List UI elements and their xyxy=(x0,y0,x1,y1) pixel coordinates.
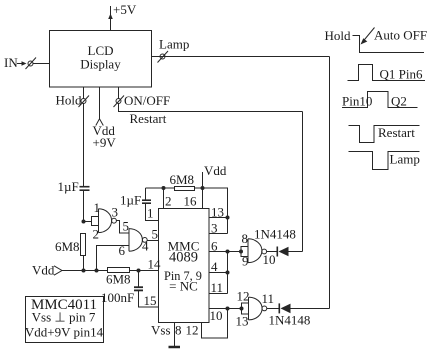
svg-text:Hold: Hold xyxy=(56,93,83,108)
svg-text:+9V: +9V xyxy=(93,135,117,150)
svg-text:4: 4 xyxy=(142,239,149,254)
diode D2 1N4148 xyxy=(279,303,290,313)
arrowhead +5V xyxy=(108,14,113,20)
gate U1c NAND pins 8,9,10 xyxy=(248,239,267,263)
wire gate1 out jog to gate2 pin5 xyxy=(117,221,130,234)
wire top rail right of resistor xyxy=(195,188,228,234)
diode D1 1N4148 xyxy=(277,247,288,257)
gate U1b NAND pins 5,6,4 xyxy=(129,229,147,252)
connector chevron Vdd rail xyxy=(54,266,62,275)
wire gate4 input splitter xyxy=(242,303,249,314)
junction dot resistor R1 at Vdd rail xyxy=(82,269,86,273)
svg-text:Hold: Hold xyxy=(325,28,352,43)
svg-text:Vss: Vss xyxy=(151,323,171,338)
wire gate2 output to IC pin5 xyxy=(147,240,158,242)
timing Q1 waveform xyxy=(348,65,426,81)
timing Auto OFF arrow xyxy=(361,28,375,45)
wire diode D1 to Restart riser xyxy=(289,251,303,253)
resistor R2 6M8 horizontal xyxy=(108,268,130,273)
svg-text:1µF: 1µF xyxy=(120,193,141,208)
wire diode D2 to Lamp riser xyxy=(291,308,330,310)
svg-text:4: 4 xyxy=(211,259,218,274)
wire gate1 input xyxy=(84,221,92,223)
svg-text:16: 16 xyxy=(184,194,198,209)
svg-text:3: 3 xyxy=(211,221,218,236)
connector circle IN xyxy=(28,61,33,66)
wire IC pin13 xyxy=(209,217,228,219)
connector circle Lamp xyxy=(160,54,165,59)
svg-text:8: 8 xyxy=(242,231,249,246)
svg-text:Q1 Pin6: Q1 Pin6 xyxy=(380,67,423,82)
svg-text:6M8: 6M8 xyxy=(170,172,195,187)
junction dot gate3 input xyxy=(239,250,243,254)
svg-text:Q2: Q2 xyxy=(391,94,407,109)
wire 100nF top lead xyxy=(138,271,140,288)
wire Lamp riser down to bottom diode xyxy=(329,57,331,309)
wire Hold stub xyxy=(83,87,85,99)
wire Vdd to IC pin16 xyxy=(202,172,204,209)
svg-text:13: 13 xyxy=(211,205,224,220)
wire ON/OFF down then right (Restart) xyxy=(119,104,303,112)
svg-text:14: 14 xyxy=(148,257,162,272)
wire Lamp horizontal xyxy=(152,56,330,58)
svg-text:5: 5 xyxy=(123,219,130,234)
svg-text:Auto OFF: Auto OFF xyxy=(374,28,427,43)
connector slash ON/OFF xyxy=(114,96,125,108)
svg-text:1N4148: 1N4148 xyxy=(254,227,296,242)
svg-text:Restart: Restart xyxy=(130,111,167,126)
junction dot pin6 at bus xyxy=(226,250,230,254)
svg-text:12: 12 xyxy=(237,289,250,304)
gate U1d NAND pins 12,13,11 xyxy=(249,297,267,320)
svg-text:11: 11 xyxy=(262,291,275,306)
junction dot 100nF at Vdd rail xyxy=(137,269,141,273)
wire IC pin4 xyxy=(209,272,228,274)
wire IC pin10 to gate4 xyxy=(209,308,241,310)
wire cap1 lower lead to gate1 node xyxy=(83,190,85,222)
wire cap2 top lead xyxy=(145,188,147,200)
svg-text:3: 3 xyxy=(112,205,119,220)
svg-text:5: 5 xyxy=(152,227,159,242)
svg-text:2: 2 xyxy=(165,194,172,209)
wire IC pin12 loop xyxy=(202,309,228,339)
svg-text:Lamp: Lamp xyxy=(390,152,420,167)
svg-text:Vss ⊥ pin 7: Vss ⊥ pin 7 xyxy=(32,310,96,325)
gate U1a NAND pins 1,2,3 xyxy=(99,209,117,233)
svg-text:100nF: 100nF xyxy=(101,290,134,305)
capacitor C1 1uF plates xyxy=(80,187,90,191)
wire Restart riser down to top diode xyxy=(302,112,304,252)
svg-text:12: 12 xyxy=(186,323,199,338)
LCD Display box U-LCD xyxy=(50,31,152,88)
svg-text:Vdd: Vdd xyxy=(32,263,55,278)
svg-text:2: 2 xyxy=(93,227,100,242)
resistor R1 6M8 vertical xyxy=(81,234,86,256)
svg-text:Display: Display xyxy=(80,57,121,72)
IC MMC4089 box xyxy=(159,209,210,323)
connector slash IN xyxy=(26,58,37,70)
svg-text:10: 10 xyxy=(263,252,276,267)
wire resistor R1 bottom to Vdd rail xyxy=(83,256,85,271)
capacitor C3 100nF plates xyxy=(134,287,143,290)
svg-text:1N4148: 1N4148 xyxy=(269,313,311,328)
wire IN arrow shaft xyxy=(17,63,24,65)
svg-text:15: 15 xyxy=(144,293,157,308)
svg-text:11: 11 xyxy=(211,280,224,295)
wire IC pin6 to gate3 xyxy=(209,251,241,253)
svg-text:6: 6 xyxy=(119,243,126,258)
svg-text:1µF: 1µF xyxy=(58,179,79,194)
wire IC pin2 stub xyxy=(163,188,165,209)
svg-text:1: 1 xyxy=(147,206,154,221)
wire Vdd rail left xyxy=(62,270,107,272)
svg-text:1: 1 xyxy=(94,200,101,215)
arrowhead IN xyxy=(22,61,27,65)
timing Restart waveform xyxy=(349,126,420,143)
junction dot gate4 input xyxy=(240,307,244,311)
connector slash Lamp xyxy=(158,51,169,63)
svg-text:6M8: 6M8 xyxy=(55,239,80,254)
wire Vdd rail right to IC pin14 xyxy=(130,270,158,272)
svg-text:ON/OFF: ON/OFF xyxy=(124,93,170,108)
wire gate3 input splitter xyxy=(241,247,248,257)
svg-text:Restart: Restart xyxy=(378,125,415,140)
wire gate1 input splitter xyxy=(92,217,99,226)
wire gate4 output to diode D2 xyxy=(267,308,280,310)
wire IC pin3 xyxy=(209,233,228,235)
wire gate3 output to diode D1 xyxy=(267,251,278,253)
wire Hold line down xyxy=(83,104,85,187)
junction dot pin13 at bus xyxy=(226,216,230,220)
wire IC pin11 xyxy=(209,293,228,295)
junction dot Vdd node top rail xyxy=(201,186,205,190)
svg-text:Lamp: Lamp xyxy=(159,37,189,52)
connector circle ON/OFF xyxy=(116,99,121,104)
wire IN to LCD xyxy=(33,63,50,65)
ground Vss pin8 stub xyxy=(174,323,176,347)
wire +5V vertical xyxy=(110,6,112,31)
svg-text:6M8: 6M8 xyxy=(106,272,131,287)
junction dot pin6 branch at Vdd rail xyxy=(95,269,99,273)
svg-text:4089: 4089 xyxy=(169,250,198,266)
connector chevron Vdd +9V xyxy=(96,119,104,126)
timing Pin10 Q2 waveform xyxy=(342,92,418,108)
svg-text:+5V: +5V xyxy=(113,2,137,17)
wire ON/OFF stub xyxy=(118,87,120,99)
wire 100nF bottom lead to IC pin15 xyxy=(139,291,159,308)
svg-text:Vdd+9V pin14: Vdd+9V pin14 xyxy=(25,325,104,340)
ground symbol Vss xyxy=(169,346,181,349)
resistor R3 6M8 top xyxy=(175,187,195,191)
svg-text:= NC: = NC xyxy=(169,279,198,294)
wire top rail to cap2 xyxy=(146,187,175,189)
svg-text:9: 9 xyxy=(242,254,249,269)
svg-text:IN: IN xyxy=(4,55,18,70)
svg-text:13: 13 xyxy=(236,314,249,329)
wire gate2 pin6 from Vdd node xyxy=(97,246,130,271)
junction dot pin2 node xyxy=(162,186,166,190)
svg-text:10: 10 xyxy=(210,308,223,323)
svg-text:Pin10: Pin10 xyxy=(342,94,372,109)
capacitor C2 1uF plates xyxy=(142,200,151,203)
connector circle Hold xyxy=(81,99,86,104)
connector slash Hold xyxy=(79,96,90,108)
timing Hold waveform xyxy=(353,36,425,53)
wire cap2 bottom lead to IC pin1 xyxy=(146,203,159,221)
junction dot pin4 at bus xyxy=(226,271,230,275)
junction dot gate1 input xyxy=(82,220,86,224)
junction dot pin10 at loop riser xyxy=(226,307,230,311)
wire Vdd +9V stub xyxy=(99,87,101,119)
wire bus pin6 to pin11 xyxy=(227,252,229,294)
note box MMC4011 xyxy=(26,297,104,343)
svg-text:Vdd: Vdd xyxy=(204,163,227,178)
timing Lamp waveform xyxy=(349,152,420,170)
svg-text:8: 8 xyxy=(175,323,182,338)
svg-text:6: 6 xyxy=(211,239,218,254)
